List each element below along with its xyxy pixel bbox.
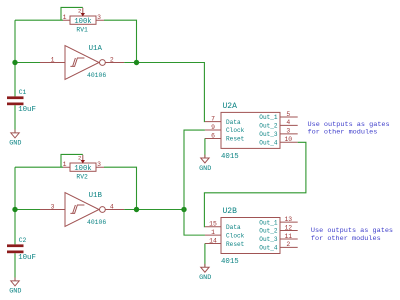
svg-text:Out_4: Out_4 bbox=[259, 139, 278, 146]
svg-text:Out_1: Out_1 bbox=[259, 219, 278, 226]
svg-text:U1A: U1A bbox=[89, 45, 103, 53]
svg-text:4015: 4015 bbox=[221, 258, 239, 266]
svg-text:Out_2: Out_2 bbox=[259, 123, 278, 130]
svg-text:U1B: U1B bbox=[89, 192, 103, 200]
svg-text:4: 4 bbox=[286, 119, 290, 126]
svg-text:3: 3 bbox=[97, 161, 101, 168]
svg-text:for other modules: for other modules bbox=[308, 129, 378, 137]
svg-text:Out_2: Out_2 bbox=[259, 228, 278, 235]
svg-text:3: 3 bbox=[51, 203, 55, 210]
svg-text:Out_3: Out_3 bbox=[259, 131, 278, 138]
svg-text:Reset: Reset bbox=[226, 136, 245, 143]
svg-text:1: 1 bbox=[51, 56, 55, 63]
svg-text:40106: 40106 bbox=[87, 72, 106, 79]
svg-text:U2A: U2A bbox=[223, 102, 238, 111]
svg-text:6: 6 bbox=[211, 132, 215, 139]
svg-text:2: 2 bbox=[110, 56, 114, 63]
svg-text:Data: Data bbox=[226, 224, 241, 231]
svg-text:10uF: 10uF bbox=[18, 106, 36, 114]
svg-text:15: 15 bbox=[209, 221, 217, 228]
svg-text:5: 5 bbox=[286, 111, 290, 118]
svg-text:Use outputs as gates: Use outputs as gates bbox=[308, 121, 390, 129]
svg-text:GND: GND bbox=[199, 165, 211, 173]
svg-text:GND: GND bbox=[199, 274, 211, 282]
svg-text:Clock: Clock bbox=[226, 127, 245, 134]
svg-text:GND: GND bbox=[9, 140, 21, 148]
svg-text:7: 7 bbox=[211, 115, 215, 122]
svg-text:RV1: RV1 bbox=[76, 26, 88, 33]
svg-text:9: 9 bbox=[211, 124, 215, 131]
svg-text:Out_4: Out_4 bbox=[259, 245, 278, 252]
svg-text:4: 4 bbox=[110, 203, 114, 210]
svg-text:40106: 40106 bbox=[87, 219, 106, 226]
svg-text:Data: Data bbox=[226, 119, 241, 126]
svg-text:2: 2 bbox=[78, 8, 81, 15]
svg-text:Out_1: Out_1 bbox=[259, 114, 278, 121]
svg-text:C1: C1 bbox=[19, 89, 27, 96]
svg-text:Use outputs as gates: Use outputs as gates bbox=[311, 227, 393, 235]
svg-text:11: 11 bbox=[284, 233, 292, 240]
svg-text:10: 10 bbox=[284, 136, 292, 143]
svg-text:13: 13 bbox=[284, 216, 292, 223]
svg-text:Clock: Clock bbox=[226, 232, 245, 239]
svg-text:GND: GND bbox=[9, 288, 21, 296]
svg-text:1: 1 bbox=[63, 14, 67, 21]
svg-text:12: 12 bbox=[284, 224, 292, 231]
svg-text:for other modules: for other modules bbox=[311, 235, 381, 243]
svg-text:Out_3: Out_3 bbox=[259, 236, 278, 243]
svg-text:3: 3 bbox=[97, 14, 101, 21]
svg-text:4015: 4015 bbox=[221, 153, 239, 161]
svg-text:RV2: RV2 bbox=[76, 173, 88, 180]
svg-text:1: 1 bbox=[63, 161, 67, 168]
svg-text:10uF: 10uF bbox=[18, 254, 36, 262]
svg-text:2: 2 bbox=[286, 241, 290, 248]
svg-text:U2B: U2B bbox=[223, 207, 238, 216]
svg-text:1: 1 bbox=[211, 229, 215, 236]
svg-text:2: 2 bbox=[78, 155, 81, 162]
svg-text:14: 14 bbox=[209, 237, 217, 244]
svg-text:100k: 100k bbox=[74, 165, 91, 173]
svg-text:100k: 100k bbox=[74, 18, 91, 26]
svg-text:C2: C2 bbox=[19, 237, 27, 244]
svg-text:3: 3 bbox=[286, 128, 290, 135]
svg-text:Reset: Reset bbox=[226, 241, 245, 248]
